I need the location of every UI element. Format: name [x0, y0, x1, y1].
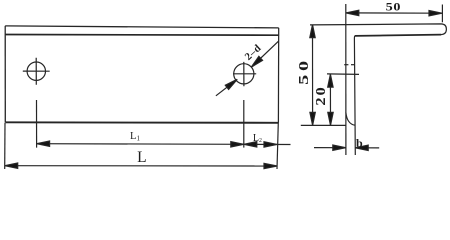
hole H2 centerline extension: [243, 100, 245, 148]
extension line right plate edge: [277, 123, 278, 170]
right view: bottom extension line: [301, 124, 346, 126]
plate outline (top view of bracket): [5, 26, 279, 28]
extension line left plate edge: [4, 123, 6, 170]
dimension L1: [37, 141, 244, 147]
svg-text:50: 50: [295, 57, 311, 85]
dimension b: [314, 145, 379, 151]
svg-text:L2: L2: [253, 133, 262, 144]
svg-text:L: L: [137, 149, 146, 166]
svg-text:50: 50: [386, 0, 402, 13]
hole H1: [23, 58, 50, 85]
right view: rounded lower end of vertical leg: [346, 113, 355, 126]
svg-text:L1: L1: [130, 131, 140, 143]
dimension 50 left: [310, 25, 316, 126]
svg-text:b: b: [356, 136, 363, 150]
svg-text:20: 20: [314, 85, 328, 105]
leader 2-d upper segment: [249, 41, 278, 69]
dimension L2: [244, 142, 291, 147]
bend line (vertical leg edge in top view): [6, 34, 279, 37]
right view: hidden hole dashes on leg: [344, 64, 354, 66]
hole H1 centerline extension: [36, 100, 38, 148]
dimension 20: [327, 74, 359, 125]
hole H2: [233, 62, 256, 86]
leader 2-d lower segment: [216, 77, 239, 96]
dimension L: [5, 163, 277, 169]
right view: angle profile outline: [345, 4, 347, 155]
dimension 50 top: [346, 5, 443, 23]
